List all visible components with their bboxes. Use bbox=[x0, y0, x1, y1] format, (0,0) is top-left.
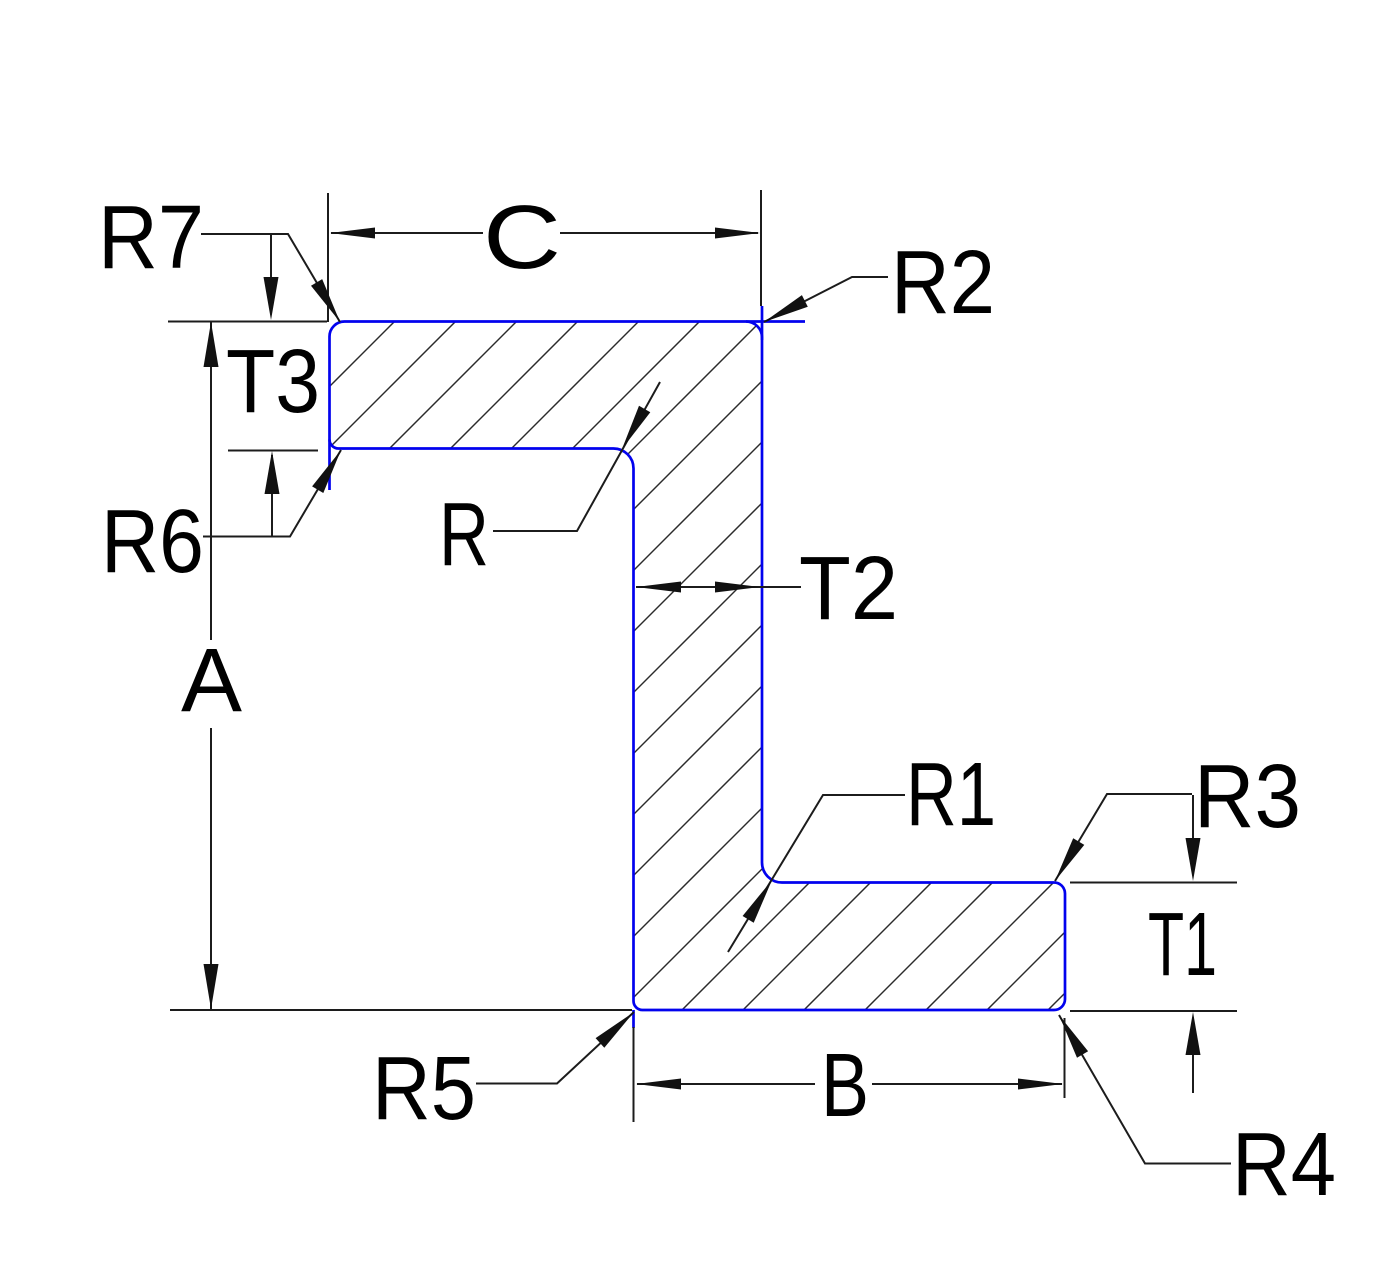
outline overshoot web right edge bbox=[761, 306, 764, 340]
section hatching bbox=[0, 300, 1400, 1030]
dim B left arrow bbox=[636, 1079, 681, 1090]
svg-text:R6: R6 bbox=[101, 492, 204, 592]
svg-text:R1: R1 bbox=[906, 745, 996, 845]
extension line C left bbox=[327, 193, 329, 322]
svg-text:T1: T1 bbox=[1148, 895, 1217, 995]
svg-text:T2: T2 bbox=[799, 539, 898, 639]
label R7 bbox=[98, 188, 204, 288]
extension line bottom (A baseline) bbox=[170, 1009, 632, 1011]
label T1 bbox=[1148, 895, 1217, 995]
leader R2 arrow bbox=[764, 295, 808, 322]
label R3 bbox=[1194, 747, 1301, 847]
svg-text:R7: R7 bbox=[98, 188, 204, 288]
svg-text:R2: R2 bbox=[891, 233, 995, 333]
svg-text:C: C bbox=[483, 188, 561, 288]
extension line T3 bottom bbox=[228, 450, 318, 452]
label R1 bbox=[906, 745, 996, 845]
leader R3 arrow bbox=[1055, 838, 1084, 881]
dimension T2 line bbox=[636, 586, 801, 588]
dim T2 right arrow bbox=[715, 582, 760, 593]
leader R7 arrow bbox=[311, 279, 340, 322]
label B bbox=[821, 1036, 869, 1136]
dim T3 bottom arrow bbox=[265, 451, 280, 494]
outline overshoot flange left edge bbox=[328, 440, 331, 491]
leader R1 arrow bbox=[743, 880, 772, 923]
leader R7 bbox=[201, 234, 340, 322]
dimension T3 top arrow stem bbox=[270, 234, 272, 300]
dim A bottom arrow bbox=[204, 964, 219, 1009]
label T2 bbox=[799, 539, 898, 639]
extension line B right bbox=[1064, 1018, 1066, 1098]
leader R4 arrow bbox=[1059, 1015, 1088, 1058]
extension line T1 bottom bbox=[1070, 1010, 1237, 1012]
leader R bbox=[493, 382, 660, 531]
svg-text:R: R bbox=[439, 485, 489, 585]
leader R arrow bbox=[622, 406, 650, 449]
dimension T1 bottom arrow stem bbox=[1192, 1055, 1194, 1093]
svg-text:B: B bbox=[821, 1036, 869, 1136]
dimension C line bbox=[331, 232, 758, 234]
dim C right arrow bbox=[715, 228, 760, 239]
dim B right arrow bbox=[1018, 1079, 1063, 1090]
leader R6 arrow bbox=[312, 450, 341, 493]
extension line B left bbox=[633, 1027, 635, 1122]
leader R5 arrow bbox=[596, 1012, 634, 1048]
dimension A line bbox=[210, 322, 212, 1009]
leader R3 bbox=[1055, 794, 1192, 881]
outline overshoot top edge bbox=[746, 320, 805, 323]
leader R2 bbox=[764, 277, 888, 322]
svg-text:A: A bbox=[181, 631, 242, 731]
dimension T1 top arrow stem bbox=[1192, 795, 1194, 840]
extension line top (A/T3) bbox=[168, 321, 327, 323]
label R5 bbox=[372, 1039, 476, 1139]
label C bbox=[483, 188, 561, 288]
extension line T1 top bbox=[1070, 882, 1237, 884]
Z-profile outline bbox=[330, 322, 1066, 1011]
leader R6 bbox=[203, 450, 341, 537]
dimension B line bbox=[637, 1083, 1062, 1085]
dim T1 bottom arrow bbox=[1186, 1012, 1201, 1055]
label R2 bbox=[891, 233, 995, 333]
svg-text:R3: R3 bbox=[1194, 747, 1301, 847]
dim A top arrow bbox=[204, 322, 219, 367]
outline overshoot web left bottom bbox=[632, 1010, 635, 1028]
leader R1 bbox=[728, 795, 905, 952]
label R bbox=[439, 485, 489, 585]
dim T2 left arrow bbox=[636, 582, 681, 593]
svg-text:T3: T3 bbox=[226, 332, 320, 432]
svg-text:R4: R4 bbox=[1232, 1115, 1336, 1215]
leader R5 bbox=[476, 1012, 634, 1084]
label R6 bbox=[101, 492, 204, 592]
dim T1 top arrow bbox=[1186, 838, 1201, 881]
extension line C right bbox=[760, 190, 762, 306]
dim T3 top arrow bbox=[264, 277, 279, 320]
label R4 bbox=[1232, 1115, 1336, 1215]
leader R4 bbox=[1059, 1015, 1231, 1164]
svg-text:R5: R5 bbox=[372, 1039, 476, 1139]
dim C left arrow bbox=[330, 228, 375, 239]
label A bbox=[181, 631, 242, 731]
dimension T3 bottom arrow stem bbox=[271, 455, 273, 536]
label T3 bbox=[226, 332, 320, 432]
